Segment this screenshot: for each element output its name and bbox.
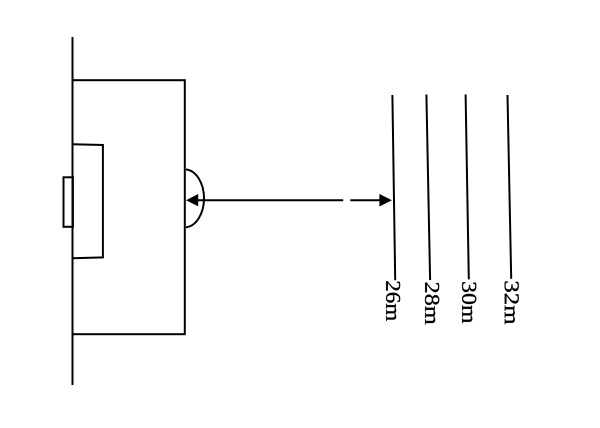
right arrowhead [379,194,392,207]
penalty arc [186,170,204,228]
penalty box (large rectangle) [73,80,185,334]
label 32m [505,281,519,324]
label 26m [386,281,400,321]
distance line 28m [426,95,430,281]
left arrowhead [186,194,198,206]
distance line 32m [508,95,512,279]
arrow dash segment [350,199,380,201]
goal line (left vertical boundary) [72,37,74,385]
goal (small rectangle behind line) [64,177,73,227]
distance line 30m [466,95,469,280]
goal area (middle rectangle) [73,144,103,258]
distance line 26m [392,95,395,280]
label 28m [425,283,439,325]
label 30m [462,282,476,323]
arrow main line [197,199,343,201]
